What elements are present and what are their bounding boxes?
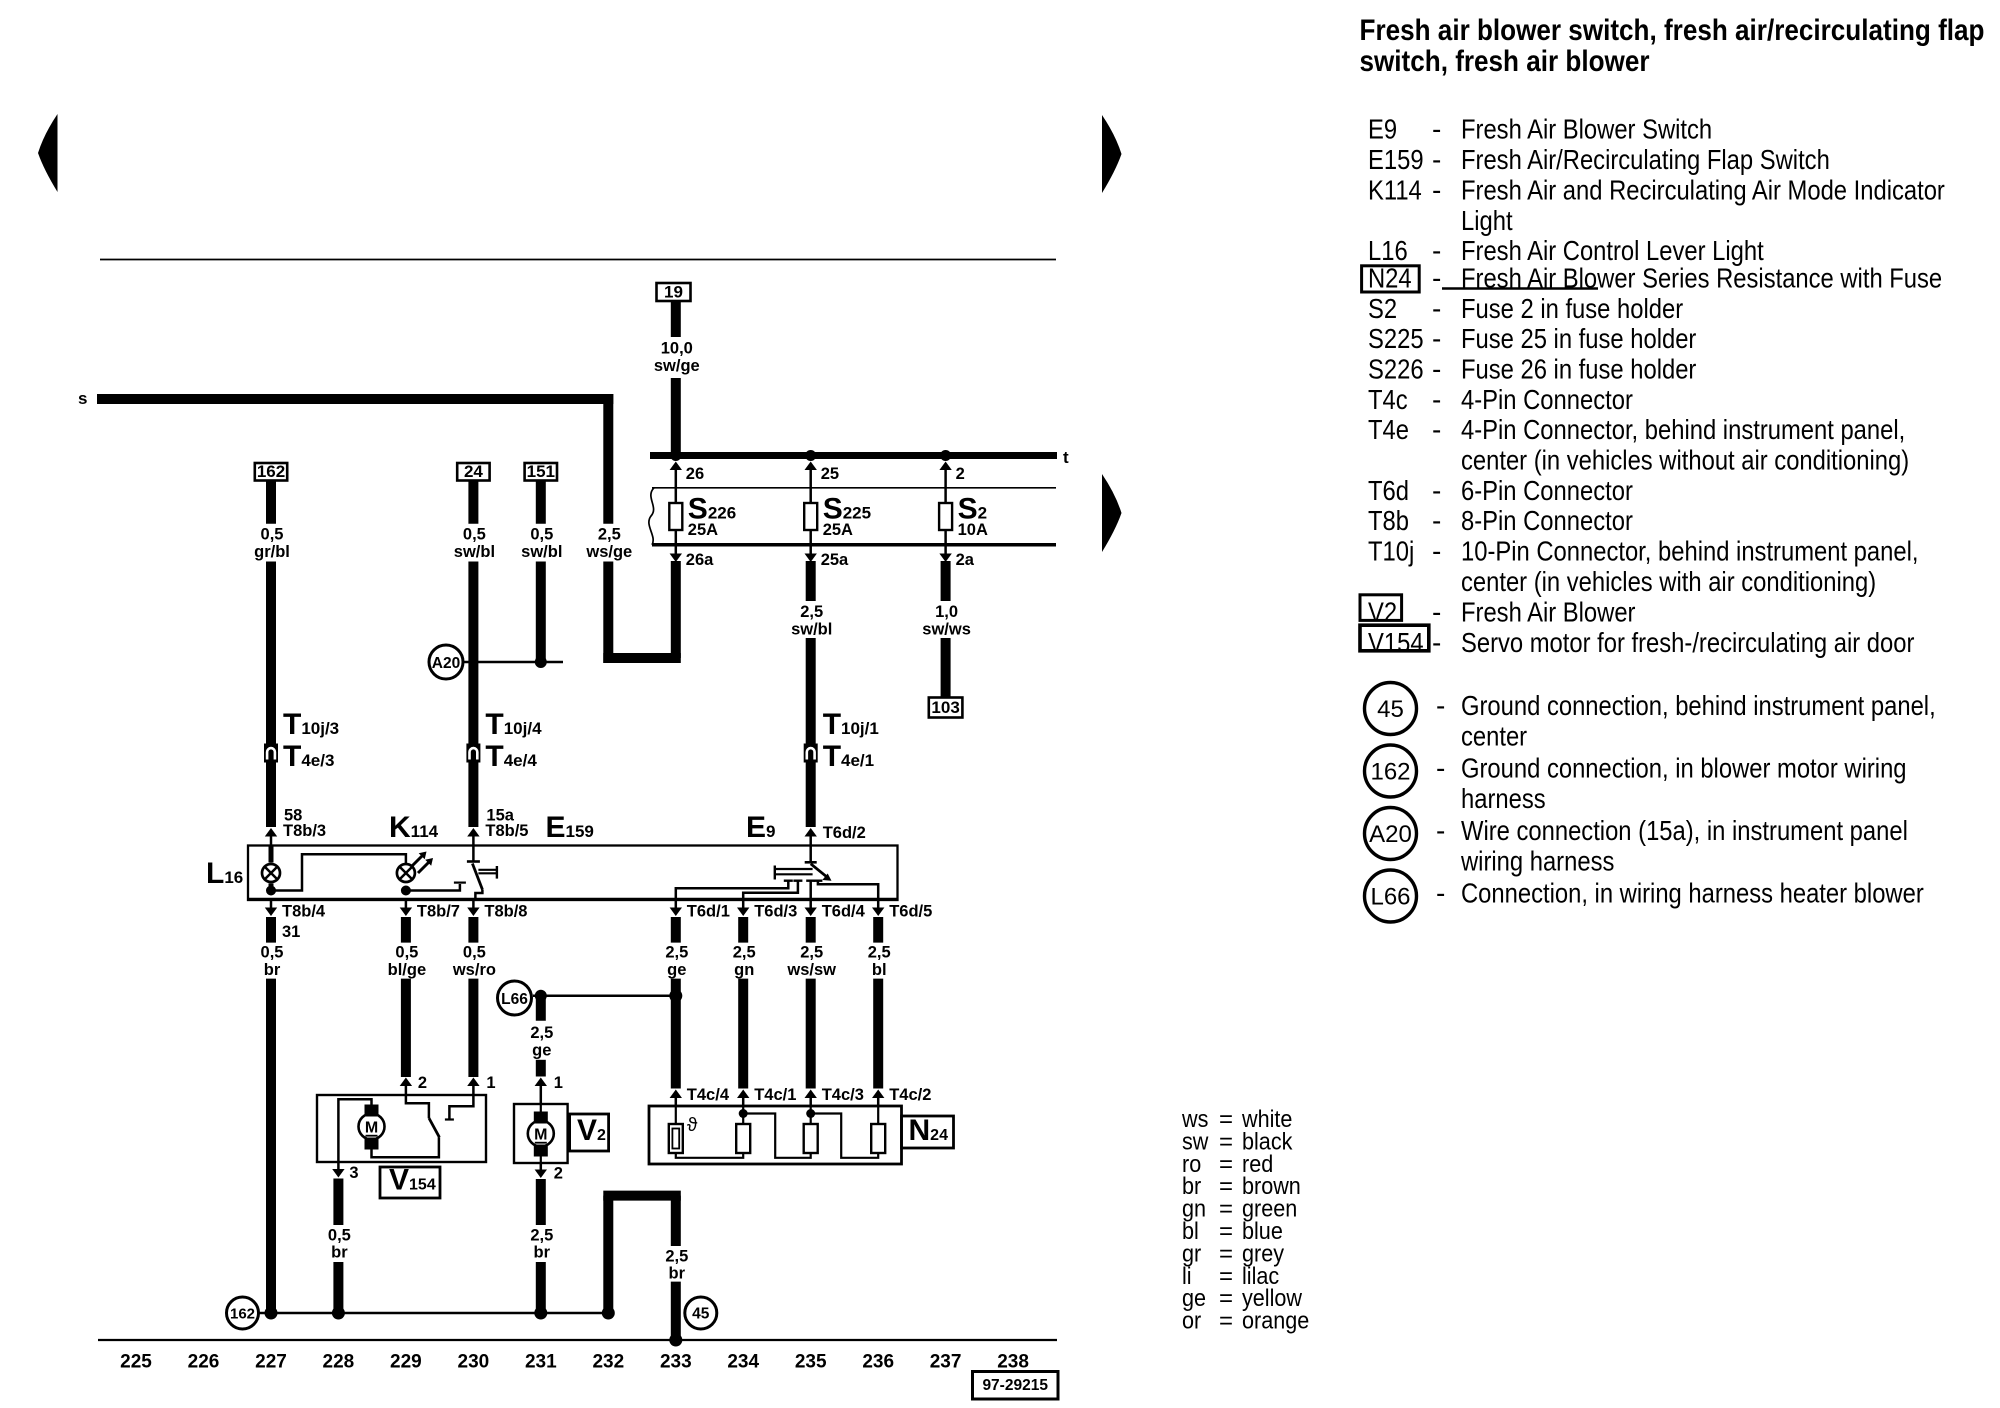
svg-text:sw/ws: sw/ws: [922, 620, 971, 638]
legend V154 designation frame: [1360, 625, 1429, 651]
wire 0,5 bl/ge to V154 pin 2: [401, 979, 411, 1077]
svg-text:bl/ge: bl/ge: [388, 961, 427, 979]
fuse S225 element: [809, 488, 812, 503]
lamp L16: [269, 846, 274, 863]
N24 wiring fuse bottom to resistor 1 bottom: [676, 1153, 743, 1158]
connector T4e/1 symbol: [804, 744, 818, 763]
svg-text:T8b/4: T8b/4: [282, 903, 326, 921]
wire 2,5 sw/bl from fuse S225 upper: [806, 561, 816, 601]
wire 2,5 br ground link top: [603, 1191, 681, 1201]
fuse holder torn left edge: [649, 488, 654, 545]
svg-text:2: 2: [956, 465, 965, 483]
svg-text:gn: gn: [734, 961, 754, 979]
junction dot ground bus track 231: [534, 1307, 547, 1320]
wire from fuse S226 pin 26a down to jog: [671, 561, 681, 658]
terminal box 151: [525, 463, 557, 481]
svg-text:V2: V2: [1368, 596, 1397, 628]
svg-text:T6d/3: T6d/3: [754, 903, 797, 921]
wire 0,5 sw/bl upper (track 231): [536, 481, 546, 524]
svg-text:Ground connection, in blower m: Ground connection, in blower motor wirin…: [1461, 752, 1907, 784]
svg-text:center (in vehicles without a: center (in vehicles without air conditio…: [1461, 444, 1909, 476]
junction dot ground bus track 228: [332, 1307, 345, 1320]
svg-text:-: -: [1432, 323, 1441, 354]
terminal box 19: [657, 283, 691, 301]
switch E9 wire to pin T6d/5: [818, 881, 878, 900]
svg-text:T4e: T4e: [1368, 413, 1409, 445]
svg-text:Servo motor for fresh-/recircu: Servo motor for fresh-/recirculating air…: [1461, 626, 1915, 658]
wire 2,5 gn upper segment: [738, 917, 748, 943]
svg-text:T8b/8: T8b/8: [484, 903, 527, 921]
junction dot bus at track 237: [940, 450, 951, 461]
svg-text:162: 162: [1370, 759, 1410, 786]
fresh air blower V2 box: [514, 1104, 568, 1163]
N24 designation box: [902, 1116, 954, 1148]
svg-text:center: center: [1461, 720, 1527, 752]
svg-text:harness: harness: [1461, 782, 1546, 814]
svg-text:Ground connection, behind inst: Ground connection, behind instrument pan…: [1461, 689, 1936, 721]
wire 0,5 bl/ge upper segment: [401, 917, 411, 943]
svg-text:0,5: 0,5: [530, 526, 553, 544]
svg-text:Connection, in wiring harness: Connection, in wiring harness heater blo…: [1461, 877, 1924, 909]
svg-text:2,5: 2,5: [665, 1247, 688, 1265]
svg-text:-: -: [1436, 753, 1445, 784]
svg-text:T8b/3: T8b/3: [283, 822, 326, 840]
pin T6d/5 of switch box: [877, 900, 880, 908]
pin T8b/7 of switch box: [405, 900, 408, 908]
wire 2,5 ws/sw upper segment: [806, 917, 816, 943]
switch E159 fixed contact: [472, 846, 475, 862]
svg-text:-: -: [1432, 175, 1441, 206]
pin arrow into switch box: [467, 828, 479, 837]
svg-text:25A: 25A: [688, 521, 718, 539]
series resistance N24 box: [649, 1106, 902, 1164]
motor symbol in V154: [359, 1114, 385, 1140]
svg-text:T6d: T6d: [1368, 474, 1409, 506]
svg-text:K114: K114: [1368, 174, 1422, 206]
svg-text:=: =: [1219, 1308, 1233, 1335]
wire 0,5 br from V154 pin 3 upper: [333, 1179, 343, 1226]
svg-text:45: 45: [692, 1306, 710, 1323]
svg-text:10A: 10A: [958, 521, 988, 539]
svg-text:-: -: [1432, 414, 1441, 445]
svg-text:br: br: [264, 961, 281, 979]
junction dot ground bus track 232: [602, 1307, 615, 1320]
wire 2,5 ws/ge vertical upper: [603, 394, 613, 524]
svg-text:2a: 2a: [956, 551, 975, 569]
V2 pin 2 arrow: [540, 1163, 543, 1170]
thermo fuse in N24: [669, 1124, 683, 1153]
svg-text:97-29215: 97-29215: [982, 1377, 1048, 1394]
terminal box 24: [457, 463, 489, 481]
svg-text:T4c/4: T4c/4: [687, 1086, 730, 1104]
right continuation arrow upper: [1102, 115, 1122, 193]
resistor 2 in N24: [804, 1124, 818, 1153]
wire 0,5 br upper segment: [266, 917, 276, 943]
wire 1,0 sw/ws from fuse S2 upper: [941, 561, 951, 601]
V154 internal switch from pin 2: [406, 1095, 429, 1118]
svg-text:2,5: 2,5: [733, 944, 756, 962]
wire 2,5 br from V2 pin 2 lower: [536, 1262, 546, 1313]
bottom rail: [98, 1339, 1057, 1341]
svg-text:T10j: T10j: [1368, 535, 1414, 567]
wire 2,5 ge to V2 lower: [536, 1060, 546, 1077]
svg-text:T4c/3: T4c/3: [822, 1086, 864, 1104]
svg-text:25: 25: [821, 465, 839, 483]
svg-text:E159: E159: [1368, 143, 1424, 175]
svg-text:-: -: [1432, 354, 1441, 385]
svg-text:center (in vehicles with air c: center (in vehicles with air conditionin…: [1461, 565, 1876, 597]
wire 2,5 br ground link lower segment: [671, 1282, 681, 1340]
svg-text:T8b/5: T8b/5: [485, 822, 528, 840]
legend N24 designation frame: [1362, 266, 1420, 292]
wire 2,5 gn to N24 (track 234): [738, 979, 748, 1089]
wire from K114 node to E159 contact: [406, 884, 460, 891]
svg-text:T8b: T8b: [1368, 504, 1409, 536]
svg-text:sw/ge: sw/ge: [654, 357, 700, 375]
switch E159 detent symbol: [478, 869, 497, 871]
svg-text:ge: ge: [667, 961, 686, 979]
junction dot A20 link at track 231: [535, 656, 547, 668]
N24 wiring T4c/1 to resistor 2 bottom: [743, 1114, 811, 1158]
svg-text:2,5: 2,5: [665, 944, 688, 962]
fuse holder top edge: [652, 487, 1056, 489]
svg-text:151: 151: [527, 462, 555, 481]
svg-text:Light: Light: [1461, 204, 1513, 236]
indicator lamp K114 (LED): [397, 864, 415, 882]
svg-text:232: 232: [592, 1352, 624, 1373]
fuse S2 input arrow pin 2: [944, 468, 947, 488]
V2 designation box: [570, 1114, 609, 1151]
N24 pin T4c/3 arrow: [805, 1090, 817, 1099]
pin T6d/3 of switch box: [742, 900, 745, 908]
legend N24 underline artifact: [1442, 287, 1598, 290]
svg-text:0,5: 0,5: [463, 944, 486, 962]
terminal box 103: [929, 698, 963, 718]
bus bar t (terminal 30 rail): [650, 452, 1057, 459]
wire 1,0 sw/ws lower: [941, 638, 951, 698]
svg-text:S225: S225: [1368, 322, 1424, 354]
svg-text:229: 229: [390, 1352, 422, 1373]
junction dot bottom rail track 233: [669, 1334, 682, 1347]
legend ground/connection symbol A20: [1365, 808, 1417, 860]
svg-text:Fuse 2 in fuse holder: Fuse 2 in fuse holder: [1461, 292, 1683, 324]
svg-text:bl: bl: [872, 961, 887, 979]
wire 2,5 ws/ge bottom jog to fuse S226: [603, 653, 681, 663]
svg-text:Wire connection (15a), in inst: Wire connection (15a), in instrument pan…: [1461, 814, 1908, 846]
connector T4e/4 symbol: [466, 744, 480, 763]
svg-text:E9: E9: [1368, 113, 1397, 145]
wire 2,5 sw/bl lower: [806, 638, 816, 744]
V154 designation box: [380, 1167, 440, 1198]
legend ground/connection symbol L66: [1365, 870, 1417, 922]
N24 wiring pin T4c/3 node: [810, 1106, 812, 1124]
switch E9 contact stubs: [784, 880, 793, 882]
svg-text:2,5: 2,5: [800, 603, 823, 621]
motor symbol in V2: [528, 1121, 554, 1147]
svg-text:T4c: T4c: [1368, 383, 1408, 415]
svg-text:45: 45: [1377, 696, 1404, 723]
svg-text:br: br: [534, 1244, 551, 1262]
svg-text:A20: A20: [432, 655, 460, 672]
svg-text:31: 31: [282, 923, 300, 941]
svg-text:sw/bl: sw/bl: [454, 543, 495, 561]
svg-text:226: 226: [188, 1352, 220, 1373]
svg-text:19: 19: [664, 283, 683, 302]
svg-text:wiring harness: wiring harness: [1460, 845, 1614, 877]
switch E159 moving contact: [472, 864, 482, 890]
junction dot L66 at track 231: [535, 990, 547, 1002]
svg-text:M: M: [365, 1120, 378, 1137]
svg-text:236: 236: [862, 1352, 894, 1373]
svg-text:25a: 25a: [821, 551, 849, 569]
junction dot ground bus track 227: [265, 1307, 278, 1320]
svg-text:1: 1: [554, 1074, 563, 1092]
svg-text:2,5: 2,5: [530, 1226, 553, 1244]
junction dot L66 at track 233: [669, 989, 682, 1002]
terminal box 162: [255, 463, 287, 481]
svg-text:T4c/2: T4c/2: [889, 1086, 931, 1104]
svg-text:2: 2: [554, 1165, 563, 1183]
svg-text:235: 235: [795, 1352, 827, 1373]
svg-text:2: 2: [418, 1074, 427, 1092]
svg-text:ws/ge: ws/ge: [585, 543, 632, 561]
svg-text:-: -: [1432, 263, 1441, 294]
N24 wiring pin T4c/1 node: [742, 1106, 744, 1124]
svg-text:or: or: [1182, 1307, 1202, 1334]
wire 2,5 ws/sw to N24 (track 235): [806, 979, 816, 1089]
svg-text:T6d/4: T6d/4: [822, 903, 866, 921]
svg-text:2,5: 2,5: [800, 944, 823, 962]
legend V2 designation frame: [1360, 595, 1402, 621]
servo motor V154 box: [317, 1095, 486, 1162]
svg-text:2,5: 2,5: [868, 944, 891, 962]
svg-text:Fresh air blower switch, fresh: Fresh air blower switch, fresh air/recir…: [1360, 13, 1985, 46]
svg-text:162: 162: [257, 462, 285, 481]
svg-text:sw/bl: sw/bl: [791, 620, 832, 638]
svg-text:-: -: [1432, 505, 1441, 536]
connector T4e/3 symbol: [264, 744, 278, 763]
svg-text:234: 234: [727, 1352, 759, 1373]
switch E9 wire to pin T6d/4: [809, 881, 812, 900]
pin arrow into switch box: [805, 828, 817, 837]
svg-text:-: -: [1436, 690, 1445, 721]
svg-text:t: t: [1063, 448, 1069, 467]
svg-text:233: 233: [660, 1352, 692, 1373]
svg-text:103: 103: [931, 698, 959, 717]
svg-text:3: 3: [349, 1164, 358, 1182]
wire 0,5 sw/bl upper (track 230): [468, 481, 478, 524]
svg-text:162: 162: [230, 1306, 255, 1323]
svg-text:230: 230: [458, 1352, 490, 1373]
svg-text:26a: 26a: [686, 551, 714, 569]
fuse S226 element: [675, 488, 678, 503]
svg-text:25A: 25A: [823, 521, 853, 539]
wire connection A20 link line: [463, 661, 563, 664]
svg-text:237: 237: [930, 1352, 962, 1373]
svg-text:Fuse 26 in fuse holder: Fuse 26 in fuse holder: [1461, 353, 1697, 385]
svg-text:1: 1: [486, 1074, 495, 1092]
wire 0,5 br from V154 pin 3 lower: [333, 1262, 343, 1313]
svg-text:227: 227: [255, 1352, 287, 1373]
wire 2,5 bl upper segment: [873, 917, 883, 943]
wire 0,5 gr/bl upper: [266, 481, 276, 524]
svg-text:225: 225: [120, 1352, 152, 1373]
wire 0,5 sw/bl lower (track 230): [468, 562, 478, 745]
N24 pin T4c/4 arrow: [670, 1090, 682, 1099]
switch assembly box (L16 K114 E159 E9): [248, 846, 898, 901]
ground connection 45 circle: [685, 1297, 717, 1329]
N24 wiring pin T4c/4 to fuse: [675, 1106, 677, 1124]
wire 2,5 bl to N24 (track 236): [873, 979, 883, 1089]
connection L66 circle: [498, 981, 532, 1015]
svg-text:-: -: [1432, 235, 1441, 266]
wire into switch box (track at x=810.7): [806, 762, 816, 827]
svg-text:4-Pin Connector, behind instru: 4-Pin Connector, behind instrument panel…: [1461, 413, 1905, 445]
svg-text:24: 24: [464, 462, 483, 481]
wire connection A20 circle: [429, 645, 463, 679]
wire 0,5 ws/ro to V154 pin 1: [468, 979, 478, 1077]
svg-text:ge: ge: [532, 1041, 551, 1059]
fuse S226 input arrow pin 26: [675, 468, 678, 488]
V2 pin 1 arrow: [535, 1078, 547, 1087]
left continuation arrow: [38, 114, 58, 192]
wire 0,5 br to ground bus (track 227): [266, 979, 276, 1313]
svg-text:-: -: [1432, 627, 1441, 658]
V154 pin 3 arrow: [337, 1162, 340, 1169]
switch E9 wire to pin T6d/1: [676, 881, 789, 900]
svg-text:Fresh Air Blower Switch: Fresh Air Blower Switch: [1461, 113, 1712, 145]
svg-text:-: -: [1432, 536, 1441, 567]
svg-text:0,5: 0,5: [395, 944, 418, 962]
wire 0,5 sw/bl lower (track 231): [536, 562, 546, 663]
svg-text:8-Pin Connector: 8-Pin Connector: [1461, 504, 1633, 536]
svg-text:T8b/7: T8b/7: [417, 903, 460, 921]
svg-text:0,5: 0,5: [328, 1226, 351, 1244]
svg-text:A20: A20: [1369, 821, 1412, 848]
svg-text:V154: V154: [1368, 626, 1424, 658]
svg-text:T6d/1: T6d/1: [687, 903, 730, 921]
right continuation arrow lower: [1102, 474, 1122, 552]
V154 internal fixed contact from pin 1: [449, 1095, 473, 1119]
svg-text:238: 238: [997, 1352, 1029, 1373]
ground connection 162 circle: [227, 1297, 259, 1329]
switch E9 input contact: [809, 846, 812, 863]
svg-text:-: -: [1432, 144, 1441, 175]
svg-text:sw/bl: sw/bl: [521, 543, 562, 561]
svg-text:s: s: [78, 389, 87, 408]
V154 pin 1 arrow: [467, 1078, 479, 1087]
N24 pin T4c/1 arrow: [737, 1090, 749, 1099]
wire 2,5 ge upper segment: [671, 917, 681, 943]
pin T6d/1 of switch box: [675, 900, 678, 908]
wire 10,0 sw/ge lower segment: [671, 378, 681, 452]
wire 2,5 ge to N24 (track 233): [671, 979, 681, 1089]
svg-text:L66: L66: [501, 991, 528, 1008]
wire 2,5 br from V2 pin 2 upper: [536, 1179, 546, 1225]
wire 2,5 br ground link riser: [603, 1196, 613, 1313]
svg-text:-: -: [1436, 878, 1445, 909]
svg-text:10-Pin Connector, behind instr: 10-Pin Connector, behind instrument pane…: [1461, 535, 1918, 567]
legend ground/connection symbol 162: [1365, 745, 1417, 797]
svg-text:-: -: [1432, 597, 1441, 628]
wire 0,5 gr/bl lower: [266, 562, 276, 745]
N24 pin T4c/2 arrow: [872, 1090, 884, 1099]
wire s feed horizontal: [97, 394, 613, 404]
svg-text:br: br: [669, 1265, 686, 1283]
svg-text:orange: orange: [1242, 1307, 1309, 1334]
svg-text:T6d/5: T6d/5: [889, 903, 932, 921]
svg-text:M: M: [534, 1127, 547, 1144]
junction dot bus at track 235: [805, 450, 816, 461]
svg-text:4-Pin Connector: 4-Pin Connector: [1461, 383, 1633, 415]
svg-text:-: -: [1432, 293, 1441, 324]
svg-text:L66: L66: [1370, 884, 1410, 911]
svg-text:S226: S226: [1368, 353, 1424, 385]
svg-text:1,0: 1,0: [935, 603, 958, 621]
junction dot bus at track 233: [670, 450, 681, 461]
svg-text:-: -: [1432, 114, 1441, 145]
wire into switch box (track at x=271.0): [266, 762, 276, 827]
wire 10,0 sw/ge from terminal 19: [671, 301, 681, 337]
fuse S2 element: [944, 488, 947, 503]
svg-text:Fuse 25 in fuse holder: Fuse 25 in fuse holder: [1461, 322, 1697, 354]
resistor 1 in N24: [736, 1124, 750, 1153]
wire 2,5 br ground link upper segment: [671, 1196, 681, 1246]
switch E9 wiper arm: [811, 864, 828, 877]
wire 2,5 ge to V2 upper: [536, 996, 546, 1021]
legend ground/connection symbol 45: [1365, 683, 1417, 735]
fuse S226 output arrow pin 26a: [675, 547, 678, 554]
svg-text:S2: S2: [1368, 292, 1397, 324]
svg-text:ϑ: ϑ: [687, 1115, 698, 1136]
wire from L16 node to K114 lamp: [271, 854, 406, 890]
pin T6d/4 of switch box: [809, 900, 812, 908]
ground bus wire: [260, 1312, 609, 1315]
wire into switch box (track at x=473.4): [468, 762, 478, 827]
svg-text:6-Pin Connector: 6-Pin Connector: [1461, 474, 1633, 506]
svg-text:-: -: [1436, 815, 1445, 846]
fuse holder bottom edge: [652, 543, 1056, 547]
V154 internal wire to pin 3: [338, 1099, 371, 1162]
fuse S225 input arrow pin 25: [809, 468, 812, 488]
svg-text:br: br: [331, 1244, 348, 1262]
connection L66 link line: [533, 995, 676, 998]
svg-text:Fresh Air and Recirculating Ai: Fresh Air and Recirculating Air Mode Ind…: [1461, 174, 1945, 206]
pin T8b/8 of switch box: [472, 900, 475, 908]
svg-text:-: -: [1432, 475, 1441, 506]
svg-text:-: -: [1432, 384, 1441, 415]
svg-text:0,5: 0,5: [261, 526, 284, 544]
wire 2,5 ws/ge vertical lower: [603, 562, 613, 664]
fuse S225 output arrow pin 25a: [809, 547, 812, 554]
svg-text:2,5: 2,5: [598, 526, 621, 544]
N24 wiring resistor 3 top to pin T4c/2: [877, 1106, 879, 1124]
svg-text:0,5: 0,5: [261, 944, 284, 962]
switch E9 wire to pin T6d/3: [743, 881, 798, 900]
fuse S2 output arrow pin 2a: [944, 547, 947, 554]
svg-text:228: 228: [323, 1352, 355, 1373]
V154 pin 2 arrow: [400, 1078, 412, 1087]
resistor 3 in N24: [871, 1124, 885, 1153]
svg-text:2,5: 2,5: [530, 1024, 553, 1042]
svg-text:switch, fresh air blower: switch, fresh air blower: [1360, 44, 1650, 77]
switch E9 detent symbol: [774, 866, 776, 880]
wire 0,5 ws/ro upper segment: [468, 917, 478, 943]
node at K114 lamp bottom: [401, 886, 411, 896]
svg-text:T6d/2: T6d/2: [823, 824, 866, 842]
svg-text:26: 26: [686, 465, 704, 483]
svg-text:231: 231: [525, 1352, 557, 1373]
